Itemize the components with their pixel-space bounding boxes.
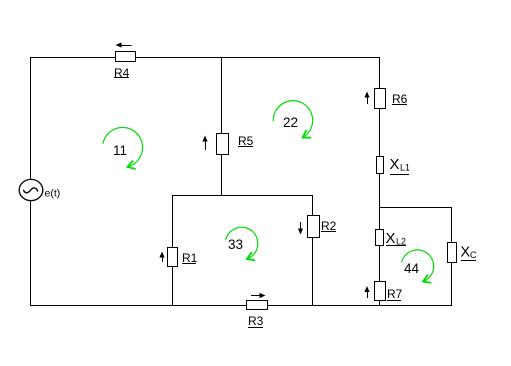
mesh current arrow 44 [402, 250, 434, 281]
current arrow R4 (left) [116, 42, 132, 47]
wire middle box top [172, 195, 313, 197]
wire between R6 and XL1 [379, 108, 381, 157]
svg-text:X: X [386, 230, 396, 247]
inductor XL1 [377, 156, 411, 175]
AC source e(t) [19, 179, 60, 200]
mesh current arrow 22 [273, 101, 312, 137]
resistor R1 [168, 248, 198, 267]
wire XC branch horizontal [379, 207, 452, 209]
wire middle box right lower (below R2) [312, 238, 314, 306]
wire R5 branch lower [221, 155, 223, 196]
wire below R7 [379, 301, 381, 306]
wire XC branch right lower [451, 262, 453, 306]
svg-text:X: X [461, 245, 471, 261]
wire bottom from left to R3 [30, 305, 246, 307]
svg-text:R5: R5 [238, 134, 254, 148]
svg-text:R3: R3 [248, 314, 264, 328]
resistor R5 [217, 134, 254, 155]
wire left vertical lower (source to bottom) [30, 200, 32, 306]
inductor XL2 [376, 230, 407, 248]
mesh current arrow 11 [103, 127, 143, 166]
wire XC branch right upper [451, 207, 453, 243]
wire between XL1 and XL2 [379, 174, 381, 230]
resistor R6 [375, 89, 408, 109]
wire R5 branch upper [221, 57, 223, 134]
svg-text:e(t): e(t) [45, 188, 61, 200]
current arrow R7 (up) [364, 286, 369, 298]
svg-text:44: 44 [404, 261, 420, 276]
svg-text:22: 22 [283, 115, 298, 130]
resistor R4 [114, 52, 136, 81]
wire middle box left upper [172, 195, 174, 248]
current arrow R6 (up) [364, 92, 369, 105]
wire middle box left lower (below R1) [172, 266, 174, 306]
wire middle box right upper (above R2) [312, 195, 314, 216]
mesh current arrow 33 [226, 227, 258, 258]
current arrow R5 (up) [202, 136, 207, 151]
svg-text:X: X [390, 156, 400, 173]
resistor R2 [308, 216, 337, 238]
wire bottom from R3 to right [268, 305, 452, 307]
current arrow R2 (down) [298, 222, 303, 235]
wire right branch top (to R6) [379, 57, 381, 89]
current arrow R1 (up) [159, 252, 164, 263]
resistor R3 [247, 301, 268, 329]
capacitor XC [448, 243, 478, 263]
svg-text:R2: R2 [321, 219, 337, 233]
wire between XL2 and R7 [379, 245, 381, 282]
svg-text:R1: R1 [182, 251, 198, 265]
wire top left from source to R4 [30, 57, 115, 59]
svg-text:L1: L1 [400, 163, 410, 173]
svg-text:C: C [470, 250, 477, 260]
resistor R7 [375, 282, 403, 302]
svg-text:33: 33 [228, 237, 243, 252]
svg-text:R6: R6 [392, 92, 408, 106]
current arrow R3 (right) [251, 293, 266, 298]
wire top from R4 to right branch [136, 57, 380, 59]
svg-text:R7: R7 [387, 287, 403, 301]
wire left vertical upper (source to top) [30, 57, 32, 180]
svg-text:11: 11 [113, 143, 127, 158]
